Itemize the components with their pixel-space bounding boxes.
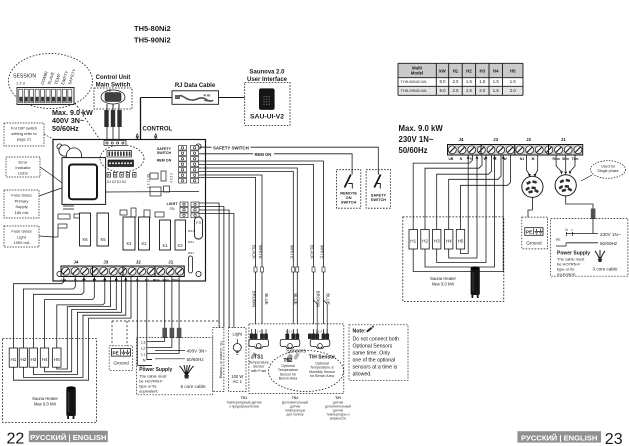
- feed wires left heater: [13, 277, 63, 349]
- svg-text:1 2 3: 1 2 3: [16, 81, 26, 86]
- crimp joints on sensor wires: [254, 267, 257, 272]
- DIP switch detail ellipse: [9, 54, 93, 109]
- svg-text:Used for: Used for: [601, 165, 616, 169]
- svg-text:РУССКИЙ | ENGLISH: РУССКИЙ | ENGLISH: [521, 433, 597, 442]
- svg-text:SAU-UI-V2: SAU-UI-V2: [250, 114, 284, 121]
- svg-text:1.5: 1.5: [510, 79, 517, 84]
- svg-text:LEDs: LEDs: [18, 171, 28, 176]
- svg-text:F3: F3: [196, 221, 200, 225]
- svg-text:PE: PE: [526, 230, 532, 235]
- svg-text:J2: J2: [136, 260, 141, 265]
- svg-text:PE: PE: [113, 350, 119, 355]
- svg-text:K4: K4: [126, 241, 132, 246]
- svg-text:1.5: 1.5: [479, 79, 486, 84]
- 3 core cable icon: [595, 250, 605, 260]
- smudge marks: [285, 354, 293, 363]
- svg-text:J4: J4: [459, 137, 464, 142]
- 400V labels: [155, 350, 185, 352]
- svg-text:Fuse Glass: Fuse Glass: [11, 193, 31, 198]
- svg-text:Ground: Ground: [526, 241, 542, 246]
- svg-text:H3: H3: [434, 239, 440, 244]
- RJ data cable box: [172, 91, 219, 105]
- svg-text:3 core cable: 3 core cable: [592, 267, 617, 272]
- svg-text:Error: Error: [19, 160, 29, 165]
- footer badge right: [517, 431, 601, 442]
- svg-text:H5: H5: [54, 357, 60, 362]
- svg-text:T/H Sensor: T/H Sensor: [309, 355, 335, 361]
- svg-text:allowed.: allowed.: [353, 372, 372, 378]
- power feed wires with ferrites: [136, 277, 138, 366]
- TB control of heating: [213, 328, 224, 392]
- DIP switches on board (ellipse detail source): [100, 145, 144, 172]
- svg-text:Light: Light: [17, 234, 27, 239]
- svg-text:1.5: 1.5: [493, 88, 500, 93]
- svg-text:8.0: 8.0: [440, 79, 447, 84]
- svg-text:Note:: Note:: [353, 329, 367, 335]
- svg-text:AC 1: AC 1: [233, 379, 243, 384]
- svg-text:RS1: RS1: [188, 229, 194, 233]
- svg-text:WHITE: WHITE: [320, 245, 325, 259]
- main switch connector on board: [104, 141, 126, 146]
- right heater enclosure: [403, 217, 504, 302]
- feed wires right heater: [413, 155, 472, 230]
- svg-text:2.0: 2.0: [479, 88, 486, 93]
- fuse F3: [195, 217, 203, 239]
- main switch S1: [94, 88, 132, 109]
- sensor TS1: [255, 329, 257, 334]
- svg-text:влажности: влажности: [330, 417, 346, 421]
- svg-text:J1: J1: [168, 260, 173, 265]
- svg-text:Max. 9.0 kW: Max. 9.0 kW: [399, 124, 444, 133]
- svg-text:H2: H2: [20, 357, 26, 362]
- svg-text:TS2: TS2: [292, 396, 299, 400]
- svg-text:RJ Data Cable: RJ Data Cable: [175, 83, 216, 89]
- svg-text:22: 22: [7, 431, 25, 446]
- svg-text:5 core cable: 5 core cable: [180, 384, 205, 389]
- svg-text:ON: ON: [170, 207, 175, 211]
- sensors box: [249, 324, 344, 394]
- power supply left box: [137, 338, 213, 395]
- dashed PE routing: [112, 320, 219, 322]
- svg-text:Fuse Glass: Fuse Glass: [11, 229, 31, 234]
- svg-text:50/60Hz: 50/60Hz: [399, 146, 428, 155]
- svg-text:1 2 11 3S: 1 2 11 3S: [147, 173, 151, 188]
- svg-text:Light: Light: [233, 332, 243, 337]
- svg-text:BLACK: BLACK: [310, 245, 315, 259]
- DIP switch block: [17, 88, 74, 105]
- heater elements H1-H5 left: [9, 348, 17, 367]
- relay K4: [123, 217, 135, 250]
- svg-text:9.0: 9.0: [440, 88, 447, 93]
- sensor TS2: [286, 329, 288, 334]
- svg-text:2.0: 2.0: [452, 88, 459, 93]
- svg-text:T/H: T/H: [335, 396, 341, 400]
- svg-text:50/60Hz: 50/60Hz: [187, 357, 205, 362]
- svg-text:SAFETY SWITCH: SAFETY SWITCH: [213, 145, 249, 150]
- svg-text:4 m: 4 m: [204, 93, 211, 98]
- heater body right: [471, 268, 480, 295]
- svg-text:230V 1N~: 230V 1N~: [399, 135, 434, 144]
- wires terminals to X1: [527, 155, 530, 174]
- svg-text:РУССКИЙ | ENGLISH: РУССКИЙ | ENGLISH: [30, 433, 106, 442]
- note: fuse glass light: [4, 226, 39, 247]
- pointer lines from notes to board: [44, 134, 60, 143]
- svg-text:4 3 2 1: 4 3 2 1: [286, 330, 295, 334]
- svg-text:same time. Only: same time. Only: [353, 351, 391, 357]
- svg-text:WHITE: WHITE: [289, 245, 294, 259]
- svg-text:Single phase: Single phase: [597, 169, 618, 173]
- svg-text:2.0: 2.0: [452, 79, 459, 84]
- svg-text:J3: J3: [493, 137, 498, 142]
- svg-text:BROWN: BROWN: [252, 291, 257, 307]
- svg-text:Primary: Primary: [15, 198, 29, 203]
- relay K3: [175, 220, 186, 250]
- svg-text:H4: H4: [493, 69, 499, 74]
- svg-text:TH5-90Ni2: TH5-90Ni2: [134, 36, 171, 45]
- svg-text:Tlim: Tlim: [172, 279, 179, 283]
- svg-text:L2: L2: [141, 345, 146, 350]
- svg-text:PE: PE: [556, 238, 561, 242]
- svg-text:Max 9.0 kW: Max 9.0 kW: [432, 281, 454, 286]
- svg-text:H1: H1: [453, 69, 459, 74]
- svg-text:SWITCH: SWITCH: [371, 197, 387, 202]
- svg-text:Saunova 2.0: Saunova 2.0: [249, 70, 285, 76]
- svg-text:Do not connect both: Do not connect both: [353, 337, 400, 343]
- svg-text:Sauna Heater: Sauna Heater: [32, 396, 58, 401]
- switch cable with colour stripes: [103, 110, 124, 128]
- footer badge left: [29, 431, 108, 443]
- svg-text:H5: H5: [458, 239, 464, 244]
- svg-text:J1: J1: [561, 137, 566, 142]
- svg-text:For DIP switch: For DIP switch: [11, 126, 37, 131]
- relay K2: [139, 217, 150, 250]
- svg-text:L: L: [572, 228, 574, 232]
- remote on switch: [336, 170, 360, 209]
- circular connector X1: [522, 176, 543, 197]
- misc small components: [150, 173, 158, 179]
- relay K6: [80, 213, 91, 246]
- svg-text:sensors at a time is: sensors at a time is: [353, 365, 398, 371]
- ferrite right: [591, 209, 596, 220]
- light box: [229, 328, 247, 392]
- sensor cable wires from board: [199, 161, 324, 329]
- svg-text:CONTROL: CONTROL: [143, 127, 173, 133]
- svg-text:160 mA: 160 mA: [15, 210, 29, 215]
- LED row D1-D5: [107, 173, 110, 178]
- circular connector X2: [555, 175, 576, 196]
- return wires left heater: [13, 277, 131, 381]
- ferrite beads left: [162, 328, 167, 338]
- svg-text:Ground: Ground: [113, 361, 129, 366]
- used for single phase note: [591, 161, 626, 179]
- toroid cores: [59, 145, 70, 156]
- heater body left: [66, 388, 76, 416]
- svg-text:RS1: RS1: [188, 240, 194, 244]
- svg-text:TB: Control of Heating: TB: Control of Heating: [219, 341, 223, 379]
- svg-text:H1: H1: [410, 239, 416, 244]
- svg-text:Slim: Slim: [162, 279, 169, 283]
- svg-text:Bench Area: Bench Area: [279, 377, 298, 381]
- svg-text:BLUE: BLUE: [264, 293, 269, 304]
- svg-text:Optional Sensors: Optional Sensors: [353, 344, 393, 350]
- svg-text:UB: UB: [449, 157, 454, 161]
- SAU-UI-V2 box: [245, 82, 290, 125]
- wire X2 to power supply: [566, 196, 593, 209]
- svg-text:1.5: 1.5: [466, 88, 473, 93]
- svg-text:Indicator: Indicator: [15, 165, 31, 170]
- wire X1 to ground: [528, 197, 532, 217]
- svg-text:Power Supply: Power Supply: [139, 367, 172, 373]
- svg-text:K1: K1: [162, 243, 168, 248]
- svg-text:2.0: 2.0: [510, 88, 517, 93]
- power supply right box: [551, 219, 628, 277]
- svg-text:TS1: TS1: [241, 396, 248, 400]
- svg-text:BLUE: BLUE: [293, 293, 298, 304]
- svg-text:1000 mA: 1000 mA: [13, 240, 29, 245]
- svg-text:Rlim: Rlim: [153, 279, 160, 283]
- svg-text:equivalent.: equivalent.: [557, 272, 576, 277]
- svg-text:I O: I O: [107, 89, 112, 93]
- svg-text:50/60Hz: 50/60Hz: [600, 241, 618, 246]
- note: fuse glass primary supply: [4, 190, 39, 218]
- wire: control unit to RJ cable: [141, 97, 173, 99]
- svg-text:J3: J3: [103, 260, 108, 265]
- wire: safety switch line: [199, 147, 378, 173]
- svg-text:M: M: [532, 157, 535, 161]
- return wires right heater: [413, 155, 503, 272]
- PE ground left: [109, 346, 133, 371]
- model/power table: [398, 63, 523, 77]
- svg-text:1.5: 1.5: [493, 79, 500, 84]
- wire: rem on line: [199, 154, 352, 173]
- svg-text:с предохранителем: с предохранителем: [229, 405, 260, 409]
- svg-text:TH5-80Ni2: TH5-80Ni2: [134, 24, 171, 33]
- pointer from ellipse to board: [75, 103, 107, 150]
- note box: [349, 325, 408, 381]
- svg-text:H1: H1: [10, 357, 16, 362]
- svg-text:Control Unit: Control Unit: [96, 75, 131, 81]
- svg-text:K5: K5: [100, 237, 106, 242]
- svg-text:N: N: [143, 357, 146, 362]
- svg-text:SWITCH: SWITCH: [341, 200, 357, 205]
- svg-text:RS1: RS1: [188, 251, 194, 255]
- svg-text:K3: K3: [177, 243, 183, 248]
- svg-text:equivalent.: equivalent.: [139, 388, 158, 393]
- svg-text:REM ON: REM ON: [157, 159, 172, 163]
- safety switch: [366, 170, 391, 209]
- svg-text:D1 D2 D3 D4: D1 D2 D3 D4: [107, 180, 126, 184]
- svg-text:H2: H2: [466, 69, 472, 74]
- board slot: [189, 256, 193, 273]
- svg-text:H2: H2: [422, 239, 428, 244]
- svg-text:J2: J2: [526, 137, 531, 142]
- note: DIP switch setting: [4, 123, 44, 146]
- 230V supply lines: [566, 233, 598, 235]
- ellipse around optional sensors: [269, 351, 344, 392]
- heater elements H1-H5 right: [409, 230, 417, 250]
- svg-text:one of the optional: one of the optional: [353, 358, 396, 364]
- svg-text:4 3 2 1: 4 3 2 1: [170, 173, 174, 183]
- board mounting holes: [57, 144, 62, 149]
- svg-text:23: 23: [605, 431, 623, 446]
- PE ground right: [522, 217, 548, 249]
- control board outline: [53, 140, 206, 282]
- svg-text:BROWN: BROWN: [316, 291, 321, 307]
- relay K1: [160, 220, 171, 250]
- svg-text:L3: L3: [141, 339, 146, 344]
- svg-text:H3: H3: [30, 357, 36, 362]
- svg-text:H4: H4: [42, 357, 48, 362]
- svg-text:H4: H4: [446, 239, 452, 244]
- svg-text:1.5: 1.5: [466, 79, 473, 84]
- svg-text:J4: J4: [74, 260, 79, 265]
- svg-text:K6: K6: [82, 237, 88, 242]
- svg-text:SWITCH: SWITCH: [157, 151, 172, 155]
- wires: TB / light from board: [199, 203, 219, 328]
- svg-text:для полков: для полков: [286, 413, 303, 417]
- svg-text:L1: L1: [141, 351, 146, 356]
- svg-text:for Bench Area: for Bench Area: [310, 374, 334, 378]
- svg-text:BLACK: BLACK: [252, 245, 257, 259]
- svg-text:H3: H3: [480, 69, 486, 74]
- svg-text:TH5-90Ni2-WL: TH5-90Ni2-WL: [401, 88, 428, 93]
- wires terminals to X2: [556, 155, 561, 171]
- svg-text:WHITE: WHITE: [258, 245, 263, 259]
- svg-text:3 2 4 1: 3 2 4 1: [254, 330, 263, 334]
- svg-text:K2: K2: [141, 241, 147, 246]
- svg-text:400V 3N~: 400V 3N~: [187, 349, 208, 354]
- svg-text:SESSION: SESSION: [13, 74, 36, 80]
- svg-text:REM ON: REM ON: [255, 152, 272, 157]
- svg-text:LIGHT: LIGHT: [167, 202, 179, 206]
- svg-text:H5: H5: [510, 69, 516, 74]
- svg-text:N1: N1: [520, 157, 524, 161]
- svg-text:Model: Model: [411, 71, 423, 76]
- transformer T1: [62, 158, 106, 205]
- relay K5: [97, 213, 109, 246]
- svg-text:page 21: page 21: [17, 137, 32, 142]
- svg-text:Max 9.0 kW: Max 9.0 kW: [34, 401, 56, 406]
- svg-text:50/60Hz: 50/60Hz: [52, 124, 79, 133]
- wire: RJ cable to user interface: [219, 97, 245, 99]
- note: error indicator LEDs: [6, 157, 40, 177]
- 5 core cable icon: [180, 365, 194, 376]
- svg-text:Sauna Heater: Sauna Heater: [430, 276, 456, 281]
- svg-text:TH5-80Ni2-WL: TH5-80Ni2-WL: [401, 79, 428, 84]
- wire: down to board CONTROL input: [140, 98, 142, 140]
- svg-text:setting refer to: setting refer to: [11, 131, 37, 136]
- header J-safety pins: [179, 145, 187, 150]
- left heater enclosure: [3, 339, 97, 423]
- sensor T/H: [313, 329, 315, 334]
- svg-text:230V 1N~: 230V 1N~: [600, 232, 621, 237]
- pcb trace lines: [53, 176, 62, 183]
- svg-text:Supply: Supply: [15, 204, 27, 209]
- svg-text:with Fuse: with Fuse: [251, 369, 266, 373]
- svg-text:kW: kW: [439, 69, 446, 74]
